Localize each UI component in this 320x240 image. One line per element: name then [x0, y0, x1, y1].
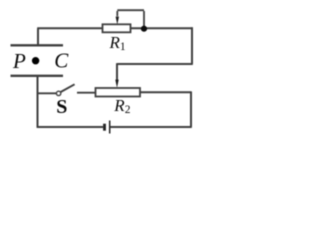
- svg-text:C: C: [54, 48, 69, 72]
- wiper arrow of R1: [116, 10, 144, 28]
- capacitor C top plate: [11, 44, 64, 46]
- wiper arrow of R2: [115, 63, 118, 88]
- wire: capacitor top plate stub up to top rail: [37, 28, 39, 45]
- charged particle dot between plates: [32, 57, 39, 64]
- wire: switch to R2 left terminal: [77, 92, 96, 94]
- wire: right rail down to bottom rail: [190, 91, 192, 127]
- svg-text:P: P: [12, 49, 26, 73]
- wire: bottom rail right (right rail to battery positive plate): [111, 126, 192, 128]
- switch S pivot circle: [56, 91, 60, 95]
- capacitor C bottom plate: [11, 75, 64, 77]
- battery cell: short negative plate: [103, 124, 106, 131]
- wire: left rail (capacitor bottom plate down to bottom rail): [37, 76, 39, 128]
- wire: R1 right terminal to right rail: [131, 27, 193, 29]
- wire: right rail down (top loop right side): [191, 27, 193, 64]
- switch S lever arm: [61, 84, 75, 92]
- wire: R2 right terminal to right rail: [140, 91, 191, 93]
- resistor R2 (rheostat body): [96, 88, 141, 97]
- battery cell: long positive plate: [109, 121, 111, 134]
- wire: left rail to switch pivot: [38, 92, 57, 94]
- wire: bottom rail left (battery negative plate to left rail): [38, 126, 104, 128]
- wire: top rail to R1 left terminal: [37, 27, 102, 29]
- resistor R1 (rheostat body): [103, 24, 131, 32]
- svg-text:S: S: [56, 96, 67, 118]
- wire: loop bottom from right rail to R2 wiper: [117, 63, 193, 65]
- junction node: R1 wiper tap on right wire: [141, 26, 147, 32]
